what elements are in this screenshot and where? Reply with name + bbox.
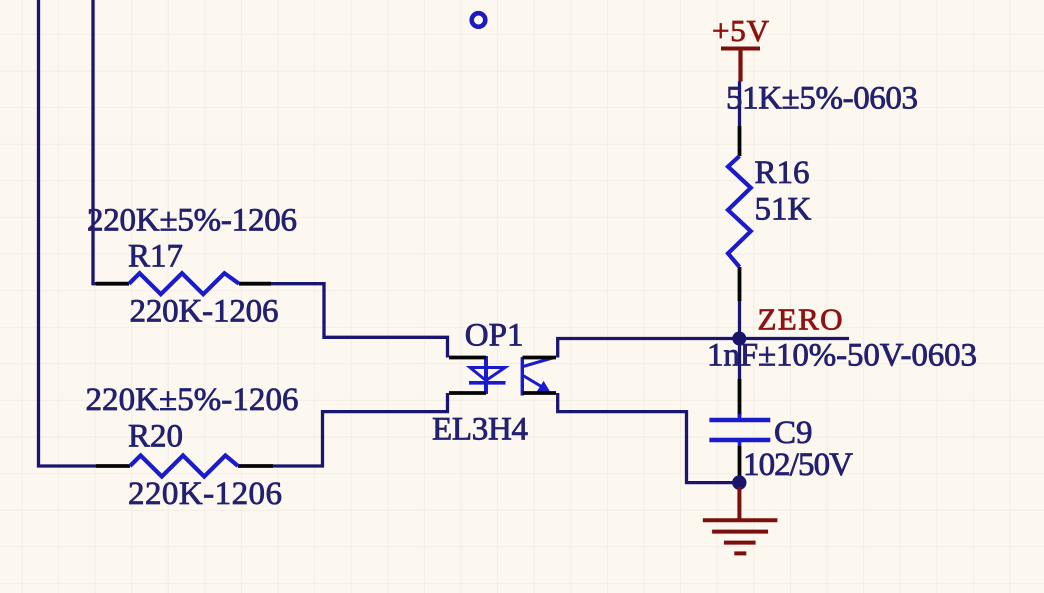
svg-text:C9: C9 — [774, 415, 813, 451]
OP1 emitter arrow — [537, 381, 551, 393]
svg-text:1nF±10%-50V-0603: 1nF±10%-50V-0603 — [707, 338, 977, 374]
svg-text:102/50V: 102/50V — [743, 447, 853, 483]
op-coupler OP1 phototransistor — [522, 357, 554, 396]
no-ERC ring — [472, 13, 486, 27]
wire: left vertical bus to R20 — [39, 0, 97, 466]
wire: R16 to ZERO node — [738, 301, 741, 379]
capacitor C9 — [709, 414, 770, 447]
op-coupler OP1 pins — [449, 358, 556, 394]
resistor R17 pins — [96, 282, 271, 286]
svg-text:EL3H4: EL3H4 — [432, 412, 528, 448]
op-coupler OP1 LED — [469, 356, 506, 394]
wire: R17 to OP1 anode — [271, 284, 448, 358]
svg-text:OP1: OP1 — [465, 318, 524, 354]
wire: OP1 collector to ZERO net — [558, 339, 849, 358]
resistor R17 — [129, 273, 239, 294]
ground symbol — [703, 487, 778, 553]
svg-text:51K: 51K — [755, 192, 812, 228]
svg-text:+5V: +5V — [712, 13, 770, 48]
svg-text:220K±5%-1206: 220K±5%-1206 — [86, 382, 299, 418]
junction node ZERO — [732, 332, 746, 346]
resistor R20 — [130, 456, 238, 477]
capacitor C9 top pin — [738, 379, 742, 417]
wire: R20 to OP1 cathode — [273, 393, 448, 466]
svg-text:R20: R20 — [128, 419, 183, 455]
resistor R16 pins — [738, 126, 742, 301]
capacitor C9 bottom pin — [738, 446, 742, 481]
svg-text:ZERO: ZERO — [758, 302, 843, 337]
resistor R20 pins — [96, 464, 273, 468]
wire: second vertical bus to R17 — [93, 0, 98, 284]
junction node ground — [732, 475, 746, 489]
wire: +5V to R16 — [738, 82, 741, 127]
svg-text:R16: R16 — [755, 155, 810, 191]
svg-text:R17: R17 — [128, 239, 183, 275]
wire: OP1 emitter to ground node — [558, 393, 740, 483]
power +5V bar — [721, 49, 760, 82]
svg-text:220K-1206: 220K-1206 — [128, 476, 282, 512]
svg-text:220K±5%-1206: 220K±5%-1206 — [87, 203, 297, 239]
svg-text:51K±5%-0603: 51K±5%-0603 — [726, 81, 918, 117]
resistor R16 — [728, 156, 751, 267]
svg-text:220K-1206: 220K-1206 — [130, 294, 279, 330]
